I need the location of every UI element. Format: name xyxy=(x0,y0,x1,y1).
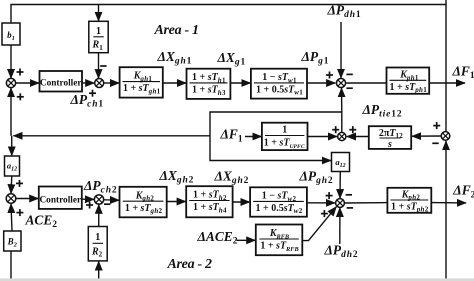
block a12 left xyxy=(5,156,20,176)
block Kph1/(1+sTph1) xyxy=(387,68,430,95)
wire: Kph1 to DF1 output xyxy=(429,82,465,84)
summing junction S5 xyxy=(336,199,345,208)
wire: B2 up into S6 xyxy=(11,204,12,231)
svg-text:1: 1 xyxy=(95,232,100,243)
summing junction S7 xyxy=(94,195,103,204)
wire: DF1 feedback down to S4 xyxy=(445,83,447,132)
block Kph2/(1+sTph2) xyxy=(387,188,431,214)
block (1+sTh2)/(1+sTh4) xyxy=(186,186,232,217)
wire: top feedback line from DF1 junction to b1 and across xyxy=(11,5,446,84)
wire: DF2 feedback up into S4 xyxy=(445,141,447,203)
wire: RFB diagonal up into S5 xyxy=(302,207,336,241)
svg-text:Controller: Controller xyxy=(40,79,82,89)
wire: tie-line signal up into S1 bottom xyxy=(10,88,12,136)
summing junction S4 xyxy=(441,132,450,141)
svg-text:1: 1 xyxy=(96,26,101,37)
svg-text:Area - 2: Area - 2 xyxy=(167,257,213,272)
wire: Kgh1 to Th1 block xyxy=(163,82,186,84)
sign + (DF1 input to S4) xyxy=(433,122,440,129)
block 1/R1 xyxy=(89,21,108,52)
wire: b1 to summing junction S1 xyxy=(10,45,12,78)
wire: 2piT12/s to S8 xyxy=(347,136,369,138)
wire: 1/R1 down into S2 xyxy=(98,53,100,79)
wire: S5 to Kph2 block xyxy=(344,202,387,204)
wire: S1 to Controller (area 1) xyxy=(16,82,39,84)
sign + (a12 input to S6) xyxy=(16,180,23,187)
summing junction S6 xyxy=(6,194,16,204)
svg-text:1: 1 xyxy=(282,125,287,136)
wire: tie-line tap to ACE (long left arrow) xyxy=(14,135,211,137)
block Controller area 2 xyxy=(39,187,82,209)
sign - (tie input to S3) xyxy=(346,87,352,89)
summing junction S2 xyxy=(95,79,104,88)
sign + (B2 input to S6) xyxy=(16,209,23,216)
wire: Th1 to Tw1 block xyxy=(230,82,250,84)
wire: dPdh2 up into S5 xyxy=(339,208,341,244)
wire: dPdh1 down into S3 xyxy=(340,22,342,78)
block K_RFB/(1+sT_RFB) xyxy=(256,225,302,256)
sign - (a12 input to S5) xyxy=(346,194,352,196)
block 1/(1+sT_UPFC) xyxy=(262,123,308,150)
svg-text:Controller: Controller xyxy=(39,195,81,205)
wire: S8 output up (handled by S3 input wire), routing to left and a12 xyxy=(210,112,342,161)
wire: Tw2 to S5 xyxy=(307,202,335,204)
wire: DF2 feedback down to bottom bus xyxy=(445,203,447,280)
wire: bottom bus up into 1/R2 xyxy=(98,261,100,279)
sign - (dPdh1 input to S3) xyxy=(346,73,352,75)
wire: branch from top line down into 1/R1 xyxy=(98,5,100,22)
wire: Kgh2 to Th2 block xyxy=(167,201,186,203)
block B2 xyxy=(4,231,21,251)
summing junction S8 xyxy=(338,132,346,140)
summing junction S1 xyxy=(6,78,15,87)
wire: a12 left down into S6 xyxy=(10,176,13,193)
sign - (DF2 input to S4) xyxy=(432,142,438,144)
block (1-sTw2)/(1+0.5sTw2) xyxy=(250,187,307,216)
wire: S7 to Kgh2 block xyxy=(104,199,119,201)
sign + (controller input to S2) xyxy=(89,90,96,97)
sign + (turbine input to S5) xyxy=(326,192,333,199)
wire: Tw1 to summing junction S3 xyxy=(307,82,335,84)
sign + (controller2 input to S7) xyxy=(86,202,93,209)
sign + (T12 input to S8) xyxy=(349,126,356,133)
block b1 xyxy=(2,23,20,45)
wire: DF1 into UPFC block xyxy=(245,136,262,138)
block (1-sTw1)/(1+0.5sTw1) xyxy=(251,69,307,99)
wire: Controller to S2 xyxy=(82,82,94,84)
wire: S2 to Kgh1 block xyxy=(104,82,120,84)
wire: Th2 to Tw2 block xyxy=(233,201,250,203)
block Controller area 1 xyxy=(40,71,83,92)
sign + (UPFC input to S8) xyxy=(332,126,339,133)
sign - (dPdh2 input to S5) xyxy=(347,207,353,209)
block Kgh2/(1+sTgh2) xyxy=(120,187,167,218)
sign + (turbine input to S3) xyxy=(326,72,333,79)
wire: tie tap down into a12 left xyxy=(11,136,13,156)
block a12 right xyxy=(332,153,350,172)
block 2piT12/s xyxy=(369,126,411,150)
wire: Controller2 to S7 xyxy=(82,198,94,200)
block Kgh1/(1+sTgh1) xyxy=(120,67,163,97)
wire: dACE2 into RFB block xyxy=(237,239,256,241)
sign + (b1 input to S1) xyxy=(17,69,24,76)
wire: S4 to 2piT12/s block xyxy=(412,135,441,137)
wire: UPFC to S8 xyxy=(308,136,338,138)
wire: 1/R2 up into S7 xyxy=(98,205,100,227)
sign + (RFB input to S5) xyxy=(321,210,328,217)
wire: a12 right down into S5 xyxy=(339,172,341,199)
wire: bottom bus up into B2 xyxy=(10,251,12,280)
wire: S3 to Kph1 block xyxy=(346,82,387,84)
svg-text:s: s xyxy=(387,139,392,150)
svg-text:Area - 1: Area - 1 xyxy=(154,23,199,38)
wire: S6 to Controller area 2 xyxy=(16,198,39,200)
block (1+sTh1)/(1+sTh3) xyxy=(187,69,231,99)
wire: Kph2 to DF2 output xyxy=(431,202,466,204)
block 1/R2 xyxy=(88,227,107,261)
summing junction S3 xyxy=(336,78,345,87)
sign - (1/R2 input to S7) xyxy=(104,203,110,205)
decorative left border and bottom band xyxy=(0,278,474,281)
sign + (tie input to S1) xyxy=(17,93,24,100)
sign - (1/R1 input to S2) xyxy=(100,65,106,67)
wire: tie-line signal up into S3 bottom xyxy=(341,88,343,112)
